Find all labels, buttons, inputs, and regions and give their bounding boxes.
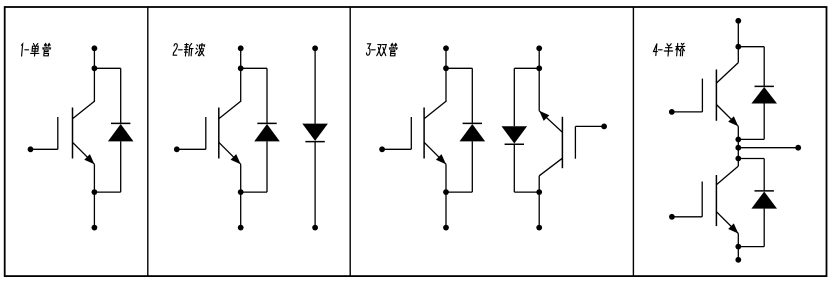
wire: collector node to diode branch (Q3) — [446, 67, 472, 69]
IGBT Q6 emitter diagonal — [716, 212, 738, 234]
wire: emitter down to emitter node (Q1) — [93, 164, 95, 192]
wire: free-wheel diode leg bottom (panel 2) — [314, 142, 316, 228]
diode D-Q1 cathode bar — [111, 122, 130, 124]
midpoint node dot 2 (panel 4) — [735, 145, 741, 151]
wire: emitter node to bottom terminal (Q3) — [445, 192, 447, 228]
diode D2b triangle (pointing down) — [302, 124, 328, 141]
wire: diode branch bottom (panel 3 right) — [513, 144, 515, 192]
top terminal dot (panel 4) — [735, 18, 741, 24]
IGBT Q3 collector diagonal — [424, 101, 446, 118]
IGBT Q1 body bar — [72, 108, 74, 159]
upper collector node dot (panel 4) — [735, 44, 741, 50]
IGBT Q5 collector diagonal — [716, 63, 738, 84]
label glyph 2-斩波 digit — [173, 44, 177, 56]
wire: diode branch to emitter node (Q3) — [446, 191, 472, 193]
panel divider 3 — [632, 7, 634, 276]
wire: node to IGBT Q6 collector — [737, 159, 739, 167]
wire: diode branch to emitter node (Q1) — [94, 191, 120, 193]
top terminal dot (panel 3 right) — [536, 45, 542, 51]
top terminal dot (Q2) — [238, 45, 244, 51]
IGBT Q3 emitter arrow — [436, 154, 446, 164]
wire: diode branch to emitter node (Q2) — [241, 191, 267, 193]
midpoint terminal dot (panel 4) — [795, 145, 801, 151]
IGBT Q5 gate plate — [701, 79, 703, 112]
diode D6 branch wire bottom — [763, 209, 765, 247]
wire: emitter node to bottom terminal (Q2) — [240, 192, 242, 228]
top terminal dot (Q1) — [92, 45, 98, 51]
diode D6 cathode bar — [755, 190, 774, 192]
midpoint node dot 1 (panel 4) — [735, 137, 741, 143]
IGBT Q3 gate plate — [410, 117, 412, 149]
wire: top terminal to collector node (Q2) — [240, 48, 242, 68]
wire: diode branch anode side (Q1) — [120, 141, 122, 192]
label glyph 4-半桥 char1 — [664, 44, 673, 56]
collector node dot (Q2) — [238, 65, 244, 71]
wire: top terminal to collector node (Q3) — [445, 48, 447, 68]
IGBT Q3 gate terminal dot — [379, 146, 385, 152]
label glyph 1-单管 digit — [21, 44, 23, 56]
label glyph 4-半桥 dash — [658, 49, 662, 51]
label glyph 2-斩波 char1 — [184, 44, 194, 57]
IGBT Q6 body bar — [715, 175, 717, 226]
diode D5 branch wire top — [738, 46, 764, 48]
IGBT Q6 gate terminal dot — [669, 214, 675, 220]
bottom terminal dot (Q2) — [238, 225, 244, 231]
top terminal dot of diode leg (panel 2) — [312, 45, 318, 51]
bottom node dot (panel 4) — [735, 244, 741, 250]
diode D6 triangle (pointing up) — [751, 192, 777, 209]
IGBT Q5 gate terminal dot — [669, 109, 675, 115]
diode D5 cathode bar — [755, 85, 774, 87]
IGBT Q3 body bar — [423, 108, 425, 159]
wire: top terminal to node (panel 3 right) — [538, 48, 540, 68]
IGBT Q5 emitter diagonal — [716, 105, 738, 127]
IGBT Q1 emitter arrow — [84, 154, 94, 164]
label glyph 1-单管 dash — [25, 49, 29, 51]
emitter node dot (Q1) — [92, 189, 98, 195]
emitter node dot (Q3) — [443, 189, 449, 195]
IGBT Q2 emitter arrow — [231, 154, 241, 164]
IGBT Q1 gate lead wire — [31, 148, 58, 150]
wire: diode branch to node (panel 3 right) — [514, 191, 539, 193]
wire: midpoint bus (panel 4) — [737, 139, 739, 158]
wire: emitter down to emitter node (Q3) — [445, 164, 447, 192]
panel divider 1 — [147, 7, 149, 276]
IGBT Q2 gate terminal dot — [174, 146, 180, 152]
diode D-Q1 triangle (pointing up) — [108, 124, 134, 141]
bottom terminal dot of diode leg (panel 2) — [312, 225, 318, 231]
wire: node to IGBT Q5 collector — [737, 47, 739, 63]
IGBT Q1 emitter diagonal — [73, 142, 95, 164]
IGBT Q1 gate plate — [57, 117, 59, 149]
label glyph 3-双管 digit — [366, 44, 370, 55]
diode D5 branch wire bottom — [763, 104, 765, 140]
wire: free-wheel diode leg top (panel 2) — [314, 48, 316, 123]
IGBT Q3 emitter diagonal — [424, 142, 446, 164]
wire: diode branch cathode side (Q3) — [471, 68, 473, 123]
IGBT Q4 gate plate — [574, 126, 576, 158]
IGBT Q2 collector diagonal — [219, 101, 241, 118]
diode D6 branch wire top — [738, 158, 764, 160]
wire: top terminal to collector node (Q1) — [93, 48, 95, 68]
IGBT Q6 gate plate — [701, 182, 703, 217]
wire: node to diode branch (panel 3 right) — [514, 67, 539, 69]
label glyph 4-半桥 digit — [653, 44, 658, 56]
wire: bottom node to bottom terminal (panel 4) — [737, 247, 739, 260]
wire: collector node down (Q2) — [240, 68, 242, 102]
bottom terminal dot (panel 4) — [735, 257, 741, 263]
wire: diode branch anode side (Q2) — [266, 141, 268, 192]
IGBT Q4 emitter diagonal — [539, 111, 562, 133]
wire: diode branch anode side (Q3) — [471, 141, 473, 192]
diode D4 anode bar — [505, 143, 524, 145]
IGBT Q1 collector diagonal — [73, 101, 95, 118]
wire: Q5 emitter down to midpoint node — [737, 126, 739, 139]
wire: node down to emitter arrow (panel 3 right) — [538, 68, 540, 111]
label glyph 3-双管 dash — [371, 49, 375, 51]
IGBT Q4 gate lead wire — [575, 125, 604, 127]
wire: diode branch cathode side (Q1) — [120, 68, 122, 123]
IGBT Q2 gate lead wire — [177, 148, 206, 150]
wire: top terminal down (panel 4) — [737, 21, 739, 47]
IGBT Q4 gate terminal dot — [601, 124, 607, 130]
IGBT Q4 collector diagonal — [539, 158, 562, 176]
IGBT Q6 gate lead wire — [672, 216, 702, 218]
wire: diode branch top (panel 3 right) — [513, 68, 515, 126]
wire: collector down to node (panel 3 right) — [538, 176, 540, 192]
IGBT Q2 body bar — [218, 108, 220, 159]
bottom terminal dot (Q3) — [443, 225, 449, 231]
IGBT Q2 emitter diagonal — [219, 142, 241, 164]
label glyph 4-半桥 char2 — [675, 43, 685, 56]
emitter node dot (panel 3 right) — [536, 65, 542, 71]
diode D2b anode bar — [305, 141, 324, 143]
wire: collector node to diode branch (Q1) — [94, 67, 120, 69]
wire: emitter down to emitter node (Q2) — [240, 164, 242, 192]
lower collector node dot 3 (panel 4) — [735, 156, 741, 162]
wire: Q6 emitter down to bottom node — [737, 234, 739, 247]
IGBT Q4 emitter arrow — [539, 111, 549, 121]
IGBT Q4 body bar — [561, 117, 563, 168]
collector node dot (panel 3 right) — [536, 189, 542, 195]
diode D-Q2 cathode bar — [257, 122, 276, 124]
emitter node dot (Q2) — [238, 189, 244, 195]
wire: emitter node to bottom terminal (Q1) — [93, 192, 95, 228]
label glyph 3-双管 char2 — [389, 44, 398, 56]
diode D-Q2 triangle (pointing up) — [254, 124, 280, 141]
IGBT Q5 body bar — [715, 70, 717, 121]
bottom terminal dot (panel 3 right) — [536, 225, 542, 231]
diode D-Q3 triangle (pointing up) — [460, 124, 486, 141]
wire: collector node to diode branch (Q2) — [241, 67, 267, 69]
bottom terminal dot (Q1) — [92, 225, 98, 231]
wire: collector node down (Q3) — [445, 68, 447, 102]
label glyph 2-斩波 dash — [178, 49, 182, 51]
wire: collector node down (Q1) — [93, 68, 95, 102]
diode D-Q3 cathode bar — [463, 122, 482, 124]
IGBT Q1 gate terminal dot — [28, 146, 34, 152]
label glyph 1-单管 char2 — [42, 44, 51, 56]
IGBT Q3 gate lead wire — [382, 148, 411, 150]
diode D4 triangle (pointing down) — [502, 126, 528, 143]
panel divider 2 — [349, 7, 351, 276]
wire: diode branch cathode side (Q2) — [266, 68, 268, 123]
IGBT Q2 gate plate — [205, 117, 207, 149]
IGBT Q6 collector diagonal — [716, 166, 738, 185]
IGBT Q5 gate lead wire — [672, 111, 703, 113]
wire: node to bottom terminal (panel 3 right) — [538, 192, 540, 228]
label glyph 3-双管 char1 — [377, 45, 387, 56]
IGBT Q5 emitter arrow — [728, 116, 738, 126]
collector node dot (Q3) — [443, 65, 449, 71]
IGBT Q6 emitter arrow — [728, 223, 738, 233]
label glyph 1-单管 char1 — [30, 44, 39, 57]
diode D5 triangle (pointing up) — [751, 87, 777, 104]
wire: midpoint to right terminal (panel 4) — [738, 147, 798, 149]
collector node dot (Q1) — [92, 65, 98, 71]
top terminal dot (Q3) — [443, 45, 449, 51]
label glyph 2-斩波 char2 — [195, 44, 205, 56]
